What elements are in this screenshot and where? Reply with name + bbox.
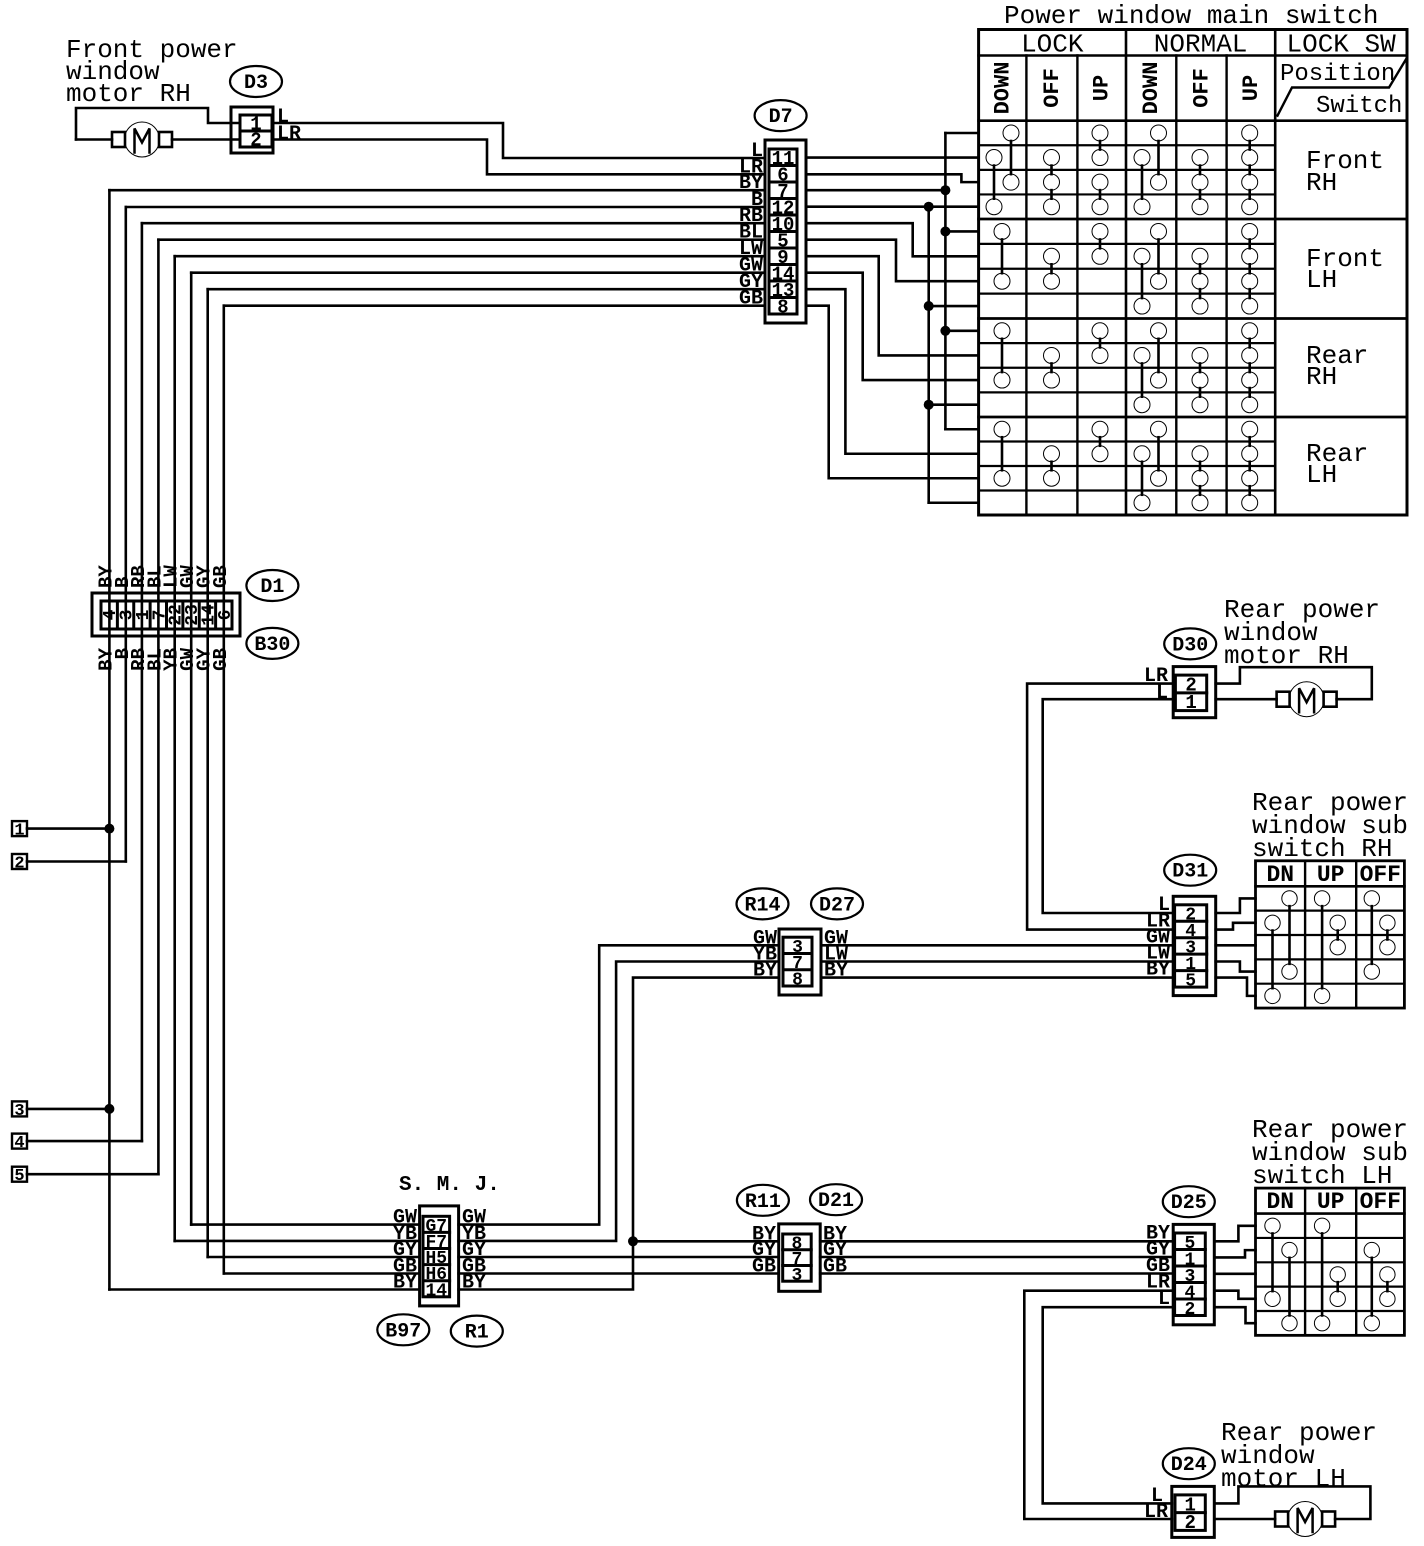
svg-text:8: 8 [777, 296, 788, 318]
wire B horizontal to D7 [126, 206, 765, 209]
svg-text:LH: LH [1306, 265, 1337, 295]
body connector 3 [12, 1101, 27, 1116]
svg-text:DN: DN [1266, 1189, 1294, 1215]
connector D1/B30 [92, 593, 240, 636]
wire D30 pin2 loop to motor RH right [1216, 667, 1372, 699]
wire LW D27 to D31 pin1 [821, 960, 1173, 963]
wire LW horizontal to D7 [175, 255, 765, 258]
svg-text:D1: D1 [260, 576, 284, 599]
wire B D7 pin12 to switch row4 [806, 205, 979, 208]
svg-text:RH: RH [1306, 362, 1337, 392]
wire D25 pin5 to LH table row1 [1214, 1226, 1255, 1242]
junction bus A / BY [940, 185, 950, 195]
motor M front RH [112, 132, 125, 147]
connector D25 label [1163, 1186, 1215, 1217]
connector R11 label [737, 1185, 789, 1216]
connector R14 label [737, 888, 789, 919]
svg-text:Rear powerwindow subswitch LH: Rear powerwindow subswitch LH [1252, 1115, 1408, 1191]
junction bus B row8 [924, 301, 934, 311]
svg-text:5: 5 [14, 1167, 24, 1186]
connector D7 label [755, 100, 807, 131]
rear sub switch LH table [1256, 1188, 1405, 1335]
svg-text:DOWN: DOWN [1139, 62, 1164, 115]
wire BL D7 pin5 to switch row7 [806, 240, 979, 281]
connector D1 label [246, 570, 298, 601]
bus B vertical (B) [927, 207, 930, 503]
svg-text:UP: UP [1239, 75, 1264, 101]
svg-text:GB: GB [823, 1256, 847, 1279]
wire GB D7 pin8 to switch row15 [806, 306, 979, 479]
wire BY R11 to D25 pin5 [820, 1240, 1173, 1243]
svg-text:OFF: OFF [1360, 862, 1401, 888]
wire BY horizontal to D7 [109, 189, 765, 192]
wire D25 pin4 to LH table row4 [1214, 1291, 1255, 1299]
power window main switch table grid [979, 30, 1407, 516]
wire GW horizontal to D7 [191, 271, 765, 274]
body connector 5 [12, 1167, 27, 1182]
rear sub switch RH table [1256, 861, 1405, 1008]
svg-text:Power window main switch: Power window main switch [1004, 1, 1378, 31]
bus A vertical (BY) [944, 133, 947, 429]
svg-text:B30: B30 [254, 634, 290, 657]
motor M rear RH [1277, 692, 1290, 707]
wire GW left vertical [190, 273, 193, 1225]
svg-text:R14: R14 [744, 894, 780, 917]
connector D25 [1173, 1224, 1214, 1324]
svg-text:BY: BY [393, 1272, 417, 1295]
junction bus A row5 [940, 226, 950, 236]
svg-text:14: 14 [425, 1281, 447, 1301]
svg-text:R1: R1 [465, 1322, 489, 1345]
bus B stub row12 [929, 403, 979, 406]
wire BL horizontal to D7 [158, 238, 765, 241]
svg-text:D25: D25 [1171, 1192, 1207, 1215]
wire LR D30 to D31 pin4 [1027, 684, 1173, 930]
wire RB horizontal to D7 [142, 222, 765, 225]
body connector 1 [12, 821, 27, 836]
connector D31 label [1164, 855, 1216, 886]
svg-text:LR: LR [277, 123, 301, 146]
wire BY into SMJ [109, 1288, 419, 1291]
connector D3 label [230, 66, 282, 97]
wire D30 pin1 to motor RH left [1216, 698, 1277, 701]
connector D7 [765, 140, 806, 323]
wire D31 pin3 to RH table row3 [1216, 944, 1256, 947]
svg-text:2: 2 [1185, 1300, 1196, 1320]
connector D30 [1173, 667, 1216, 718]
wire LR D25 pin4 to D24 pin2 [1024, 1291, 1173, 1519]
wire BY D27 to D31 pin5 [821, 976, 1173, 979]
svg-text:LH: LH [1306, 460, 1337, 490]
svg-text:GB: GB [752, 1256, 776, 1279]
wire GY into SMJ [208, 1256, 420, 1259]
wire L D7 pin11 to switch row2 [806, 156, 979, 159]
wire GB SMJ to R11 [459, 1272, 779, 1275]
wire D25 pin3 to LH table row3 [1214, 1273, 1255, 1276]
wire D25 pin2 to LH table row5 [1214, 1307, 1255, 1323]
svg-text:OFF: OFF [1360, 1189, 1401, 1215]
svg-text:OFF: OFF [1189, 68, 1214, 108]
svg-text:2: 2 [1184, 1512, 1195, 1534]
svg-text:D24: D24 [1171, 1454, 1207, 1477]
svg-text:1: 1 [14, 822, 24, 841]
main switch contacts [1003, 125, 1019, 141]
wire D31 pin1 to RH table row4 [1216, 962, 1256, 972]
connector SMJ B97/R1 [420, 1206, 459, 1306]
svg-text:DN: DN [1266, 862, 1294, 888]
connector D3 [231, 107, 273, 153]
svg-text:6: 6 [216, 610, 236, 621]
svg-text:Rear powerwindowmotor RH: Rear powerwindowmotor RH [1224, 595, 1380, 671]
svg-text:Position: Position [1280, 61, 1395, 88]
wire motor RH loop to D3 pin1 [76, 108, 240, 140]
svg-text:D30: D30 [1172, 634, 1208, 657]
wire D24 pin2 to motor LH left [1214, 1518, 1275, 1521]
svg-text:Rear powerwindowmotor LH: Rear powerwindowmotor LH [1221, 1418, 1377, 1494]
wire GY D7 pin13 to switch row14 [806, 289, 979, 454]
svg-text:5: 5 [1185, 971, 1196, 991]
connector R14/D27 [779, 929, 821, 995]
svg-text:3: 3 [792, 1266, 803, 1286]
svg-text:D3: D3 [244, 72, 268, 95]
svg-text:D27: D27 [819, 894, 855, 917]
wire GB left vertical [223, 306, 226, 1274]
wire YB into SMJ [175, 1240, 420, 1243]
svg-text:2: 2 [14, 855, 24, 874]
junction bus A row9 [940, 326, 950, 336]
connector D24 label [1163, 1448, 1215, 1479]
body connector 4 [12, 1134, 27, 1149]
wire GW into SMJ [191, 1223, 419, 1226]
wire BY D7 pin7 to bus A [806, 189, 945, 192]
junction bus B / B wire [924, 202, 934, 212]
wire D31 pin2 to RH table row1 [1216, 898, 1256, 913]
wire BL left vertical [157, 240, 160, 1174]
svg-text:Rear powerwindow subswitch RH: Rear powerwindow subswitch RH [1252, 788, 1408, 864]
wire GY R11 to D25 pin1 [820, 1256, 1173, 1259]
svg-text:1: 1 [1185, 692, 1196, 714]
connector D31 [1173, 896, 1216, 995]
wire GB horizontal to D7 [224, 304, 765, 307]
wire GW SMJ to R14 [459, 945, 779, 1224]
svg-text:BY: BY [753, 960, 777, 983]
svg-text:UP: UP [1317, 1189, 1345, 1215]
wire D25 pin1 to LH table row2 [1214, 1250, 1255, 1257]
svg-text:NORMAL: NORMAL [1154, 30, 1248, 60]
svg-text:S. M. J.: S. M. J. [399, 1174, 500, 1197]
wire GB into SMJ [224, 1272, 420, 1275]
wire GW D7 pin14 to switch row11 [806, 273, 979, 380]
wire L D3 to D7 pin11 [273, 123, 765, 158]
wire RB left vertical [141, 223, 144, 1141]
wire GY horizontal to D7 [208, 288, 765, 291]
svg-text:UP: UP [1090, 75, 1115, 101]
bus A stub row1 [945, 132, 978, 135]
wire LR D7 pin6 to switch row3 [806, 174, 979, 182]
wire D31 pin4 to RH table row2 [1216, 923, 1256, 930]
wire LW/YB left vertical [173, 256, 176, 1241]
wire LW D7 pin9 to switch row10 [806, 256, 979, 355]
svg-text:4: 4 [14, 1134, 24, 1153]
svg-text:RH: RH [1306, 168, 1337, 198]
wire motor RH left lead [76, 138, 112, 141]
wire RB D7 pin10 to switch row6 [806, 223, 979, 256]
bus B stub row8 [929, 305, 979, 308]
connector D30 label [1164, 628, 1216, 659]
position/switch divider [1278, 59, 1407, 115]
svg-text:LOCK SW: LOCK SW [1286, 30, 1396, 60]
bus A stub row5 [945, 230, 978, 233]
svg-text:OFF: OFF [1040, 68, 1065, 108]
bus A stub row9 [945, 330, 978, 333]
wire L D25 pin2 to D24 pin1 [1043, 1307, 1174, 1503]
wire BY SMJ to R14 [459, 978, 779, 1290]
connector R11/D21 [779, 1224, 821, 1291]
motor M rear LH [1275, 1512, 1288, 1527]
wire LR D3 to D7 pin6 [273, 140, 765, 175]
connector SMJ B97/R1 label B97 [377, 1314, 429, 1345]
connector D21 label [810, 1184, 862, 1215]
connector B30 label [246, 628, 298, 659]
svg-text:BY: BY [462, 1272, 486, 1295]
junction BY branch [628, 1236, 638, 1246]
svg-text:GB: GB [210, 648, 232, 671]
svg-text:Switch: Switch [1316, 93, 1402, 120]
wire D31 pin5 to RH table row5 [1216, 978, 1256, 996]
connector SMJ B97/R1 label R1 [451, 1316, 503, 1347]
svg-text:Front powerwindowmotor RH: Front powerwindowmotor RH [66, 35, 238, 109]
svg-text:L: L [1156, 682, 1168, 705]
wire GW D27 to D31 pin3 [821, 944, 1173, 947]
wire GB R11 to D25 pin3 [820, 1272, 1173, 1275]
svg-text:GB: GB [210, 565, 232, 588]
svg-text:8: 8 [792, 970, 803, 990]
svg-text:D7: D7 [769, 106, 793, 129]
wire BY branch to R11 [633, 1240, 779, 1243]
wire BY left vertical [108, 190, 111, 1289]
svg-text:B97: B97 [385, 1320, 421, 1343]
wire motor RH to D3 pin2 [172, 138, 240, 141]
wire L D30 to D31 pin2 [1043, 699, 1174, 913]
svg-text:2: 2 [250, 130, 261, 152]
connector D27 label [811, 888, 863, 919]
svg-text:D21: D21 [818, 1190, 854, 1213]
body connector 2 [12, 854, 27, 869]
connector D24 [1172, 1486, 1215, 1537]
junction bus B row12 [924, 400, 934, 410]
svg-text:LOCK: LOCK [1021, 30, 1084, 60]
svg-text:GB: GB [739, 288, 763, 311]
wire GY SMJ to R11 [459, 1256, 779, 1259]
svg-text:3: 3 [14, 1102, 24, 1121]
bus A stub row13 [945, 428, 978, 431]
bus B stub row16 [929, 501, 979, 504]
svg-text:DOWN: DOWN [991, 62, 1016, 115]
svg-text:D31: D31 [1172, 861, 1208, 884]
svg-text:UP: UP [1317, 862, 1345, 888]
wire D24 pin1 loop to motor LH right [1214, 1486, 1370, 1519]
wire GY left vertical [206, 289, 209, 1257]
svg-text:R11: R11 [745, 1191, 781, 1214]
wire YB SMJ to R14 [459, 962, 779, 1241]
wire B left vertical [125, 207, 128, 862]
svg-text:BY: BY [824, 960, 848, 983]
